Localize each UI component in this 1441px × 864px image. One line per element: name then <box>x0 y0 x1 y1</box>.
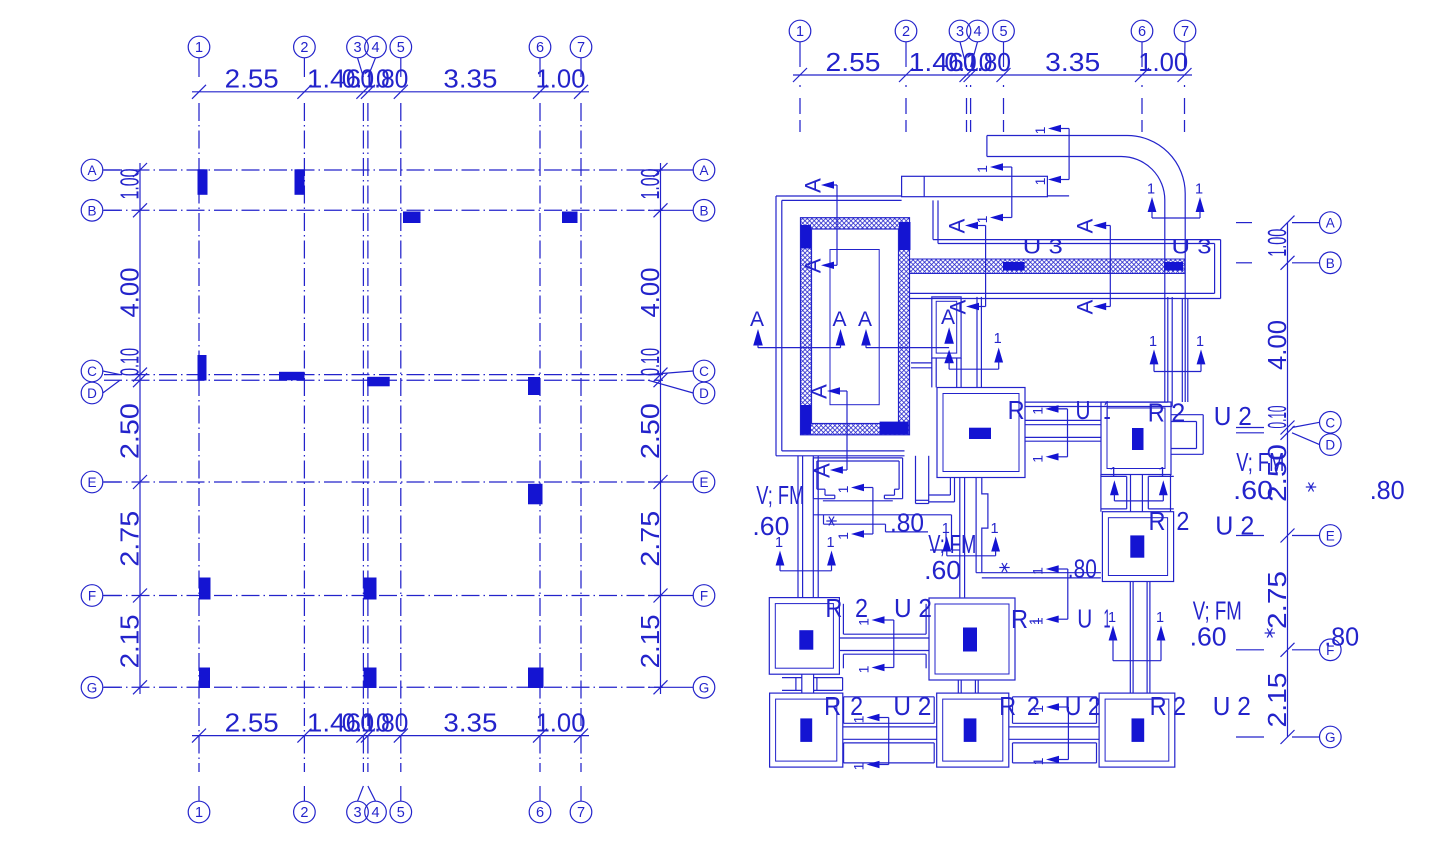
svg-text:.80: .80 <box>1068 554 1097 584</box>
left plan column C1 <box>198 355 207 381</box>
closet box <box>911 297 961 388</box>
left plan grid line 7 <box>570 36 592 823</box>
left plan grid line 4 <box>365 36 387 823</box>
svg-text:3.35: 3.35 <box>443 708 497 738</box>
column B7 <box>1164 262 1183 271</box>
svg-text:A: A <box>945 218 970 233</box>
svg-text:4.00: 4.00 <box>635 268 665 318</box>
svg-text:2.15: 2.15 <box>115 614 145 668</box>
stair column bottom (horizontal) <box>880 422 909 435</box>
label V FM margin C <box>1233 447 1284 505</box>
svg-text:7: 7 <box>577 40 585 56</box>
svg-text:6: 6 <box>1138 24 1146 40</box>
right plan grid row C <box>1236 412 1341 434</box>
svg-text:A: A <box>1326 216 1335 231</box>
svg-text:1: 1 <box>1030 407 1046 415</box>
left plan column F1 <box>199 578 211 600</box>
svg-text:1: 1 <box>1032 126 1048 134</box>
svg-text:A: A <box>810 463 835 478</box>
svg-text:1.00: 1.00 <box>1138 47 1188 77</box>
svg-text:0.10: 0.10 <box>635 348 665 376</box>
svg-text:1: 1 <box>1032 177 1048 185</box>
section A-A leader upper <box>801 178 838 273</box>
svg-text:1.00: 1.00 <box>115 169 145 200</box>
svg-text:1: 1 <box>1156 610 1164 626</box>
svg-text:F: F <box>700 589 708 604</box>
beam C row <box>1026 420 1102 441</box>
label R2 U2 G34 <box>999 691 1101 721</box>
svg-text:1: 1 <box>1149 334 1157 350</box>
right plan grid line 4 <box>967 20 989 132</box>
svg-text:R: R <box>1148 397 1165 427</box>
svg-text:V; FM: V; FM <box>1236 447 1284 477</box>
svg-text:3: 3 <box>956 24 964 40</box>
footing R1 C <box>937 388 1025 478</box>
svg-text:3.35: 3.35 <box>1045 47 1100 77</box>
svg-text:4.00: 4.00 <box>115 268 145 318</box>
label R1 C row <box>1008 395 1111 425</box>
svg-text:6: 6 <box>536 40 544 56</box>
svg-text:2: 2 <box>1173 691 1186 721</box>
svg-text:1: 1 <box>796 24 804 40</box>
star mid <box>999 563 1009 572</box>
svg-text:1.00: 1.00 <box>536 64 586 94</box>
left plan column G1 <box>199 668 210 689</box>
section 1-1 beam F <box>856 616 894 673</box>
svg-text:C: C <box>699 364 709 379</box>
svg-text:U 2: U 2 <box>1214 401 1252 431</box>
svg-text:7: 7 <box>577 805 585 821</box>
svg-text:2: 2 <box>1176 506 1189 536</box>
svg-text:0.10: 0.10 <box>115 348 145 376</box>
right plan grid row D <box>1236 433 1341 456</box>
svg-text:1: 1 <box>1030 455 1046 463</box>
left plan right dimension line <box>635 163 668 694</box>
svg-text:2: 2 <box>902 24 910 40</box>
svg-text:G: G <box>87 680 98 695</box>
left plan column G6 <box>528 668 544 689</box>
left plan column G34 <box>364 668 377 689</box>
svg-text:1: 1 <box>195 805 203 821</box>
label U3 left <box>1023 236 1063 259</box>
right plan grid line 5 <box>993 20 1015 132</box>
left plan column C2 <box>279 372 305 381</box>
svg-text:2.75: 2.75 <box>1262 571 1292 629</box>
svg-text:1: 1 <box>1109 465 1117 481</box>
top beam U3 with curved hook <box>987 135 1185 402</box>
svg-text:.80: .80 <box>1324 622 1359 652</box>
svg-text:4: 4 <box>973 24 981 40</box>
svg-text:B: B <box>87 203 96 218</box>
svg-text:1: 1 <box>1195 182 1203 198</box>
left plan grid row F <box>81 585 715 607</box>
svg-text:.60: .60 <box>924 555 961 585</box>
svg-text:R: R <box>1150 691 1167 721</box>
beam F row <box>839 604 929 669</box>
svg-text:A: A <box>858 308 872 331</box>
footing R2 G34 <box>937 693 1009 767</box>
svg-text:1.00: 1.00 <box>1262 229 1292 257</box>
left plan grid line 6 <box>529 36 551 823</box>
section 1-1 stair bottom <box>835 484 873 540</box>
right plan top dimension line <box>793 47 1192 82</box>
footing R2 E6 <box>1102 512 1173 582</box>
stair wall ring (hatched) <box>801 218 910 435</box>
svg-text:2: 2 <box>1171 397 1185 427</box>
svg-text:1: 1 <box>835 532 851 540</box>
svg-text:A: A <box>946 299 971 314</box>
label U3 right <box>1172 236 1212 259</box>
beam grid6 C-E <box>1101 475 1174 512</box>
right plan grid row E <box>1236 525 1341 547</box>
svg-text:G: G <box>1325 730 1336 745</box>
left plan bottom dimension line <box>192 708 589 743</box>
label V FM mid <box>924 529 976 585</box>
steps stair to footing R1C <box>916 456 929 504</box>
svg-text:1: 1 <box>1030 567 1046 575</box>
wall B (hatched) <box>910 259 1185 274</box>
left plan column C34 <box>367 377 390 387</box>
svg-text:4.00: 4.00 <box>1262 320 1292 370</box>
left plan grid row B <box>81 200 715 222</box>
svg-text:2: 2 <box>300 40 308 56</box>
svg-text:0.80: 0.80 <box>360 64 408 94</box>
svg-text:R: R <box>999 691 1016 721</box>
svg-text:U: U <box>1077 604 1092 634</box>
label .80 E <box>1068 554 1097 584</box>
svg-text:U 3: U 3 <box>1023 236 1063 259</box>
star margin F <box>1265 629 1275 638</box>
svg-text:1.00: 1.00 <box>635 169 665 200</box>
svg-text:1: 1 <box>1104 395 1111 425</box>
svg-text:A: A <box>807 384 832 399</box>
label R2 U2 G6 <box>1150 691 1251 721</box>
svg-text:1: 1 <box>991 521 999 537</box>
svg-text:C: C <box>1325 415 1335 430</box>
svg-text:A: A <box>1073 218 1098 233</box>
star margin C <box>1306 483 1316 492</box>
svg-text:1: 1 <box>1196 334 1204 350</box>
svg-text:7: 7 <box>1181 24 1189 40</box>
svg-text:E: E <box>699 475 708 490</box>
svg-text:0.10: 0.10 <box>1262 406 1292 429</box>
svg-text:2.55: 2.55 <box>225 708 279 738</box>
svg-text:1: 1 <box>1147 182 1155 198</box>
svg-text:2.55: 2.55 <box>826 47 881 77</box>
section A-A cut line <box>750 306 955 369</box>
left plan grid line 2 <box>294 36 316 823</box>
right plan grid line 3 <box>949 20 971 132</box>
left plan grid row A <box>81 159 715 181</box>
svg-text:B: B <box>699 203 708 218</box>
svg-text:1: 1 <box>974 165 990 173</box>
wall piece mid <box>813 515 959 550</box>
right plan grid row G <box>1236 726 1341 748</box>
svg-text:0.80: 0.80 <box>963 47 1011 77</box>
svg-text:D: D <box>699 386 709 401</box>
right plan grid line 6 <box>1131 20 1153 132</box>
beam grid1 vertical <box>798 456 818 598</box>
svg-text:2.15: 2.15 <box>635 614 665 668</box>
label R2 U2 G1 <box>824 691 931 721</box>
svg-text:0.80: 0.80 <box>360 708 408 738</box>
svg-text:2: 2 <box>850 691 863 721</box>
section 1-1 beam G a <box>851 714 889 771</box>
section 1-1 beam C <box>1030 405 1068 462</box>
label R2 U2 E6 <box>1149 506 1255 541</box>
hat beam outline <box>813 458 902 501</box>
section 1-1 top beam <box>1032 125 1069 186</box>
svg-text:2.15: 2.15 <box>1262 673 1292 728</box>
svg-text:5: 5 <box>397 805 405 821</box>
svg-text:.80: .80 <box>890 508 924 538</box>
footing C6 notch <box>1171 415 1203 455</box>
right plan dimension line <box>1262 216 1295 744</box>
svg-text:1: 1 <box>851 762 867 770</box>
beam grid34 F-G <box>958 680 978 693</box>
svg-text:1: 1 <box>1158 465 1166 481</box>
wall grid7 B-C <box>1182 299 1188 403</box>
stair opening <box>830 250 879 405</box>
footing R2 C6 <box>1101 402 1171 475</box>
top beam 2 <box>902 176 1070 196</box>
label R1 F row <box>1011 604 1111 635</box>
section A-A leader room-left <box>945 218 986 314</box>
left plan grid line 1 <box>188 36 210 823</box>
svg-text:B: B <box>1326 256 1335 271</box>
svg-text:1: 1 <box>195 40 203 56</box>
section 1-1 wall B g5 <box>949 331 1003 369</box>
svg-text:E: E <box>87 475 96 490</box>
label R2 U2 F1 <box>825 593 932 623</box>
stair column top-right <box>899 222 911 250</box>
svg-text:.60: .60 <box>1190 622 1227 652</box>
svg-text:2.50: 2.50 <box>635 403 665 459</box>
svg-text:1: 1 <box>1026 617 1042 625</box>
svg-text:1: 1 <box>974 215 990 223</box>
left plan grid row D <box>81 380 715 404</box>
svg-text:2.50: 2.50 <box>115 403 145 459</box>
svg-text:D: D <box>1325 438 1335 453</box>
left plan grid line 5 <box>390 36 412 823</box>
section 1-1 hook <box>1147 182 1204 219</box>
svg-text:R: R <box>825 593 842 623</box>
beam grid1 F-G <box>782 674 843 693</box>
svg-text:4: 4 <box>371 40 379 56</box>
svg-text:A: A <box>801 258 826 273</box>
svg-text:R: R <box>1008 395 1025 425</box>
svg-text:R: R <box>1149 506 1166 536</box>
section A-A leader room-right <box>1073 218 1111 314</box>
left plan column A2 <box>295 169 305 195</box>
room walls <box>977 297 1172 407</box>
section 1-1 beams g34 E <box>942 521 1000 556</box>
svg-text:3: 3 <box>353 40 361 56</box>
svg-text:A: A <box>801 178 826 193</box>
svg-text:2.75: 2.75 <box>115 511 145 567</box>
svg-text:2: 2 <box>1027 691 1040 721</box>
section 1-1 beam g1 <box>775 535 836 571</box>
svg-text:1.00: 1.00 <box>536 708 586 738</box>
left plan column B7 <box>562 212 578 224</box>
svg-text:.60: .60 <box>752 511 789 541</box>
svg-text:A: A <box>87 163 96 178</box>
section 1-1 beam g34 EF <box>1030 565 1068 625</box>
right plan grid row A <box>1236 212 1341 234</box>
svg-text:2: 2 <box>855 593 868 623</box>
section A-A leader lower <box>807 384 848 478</box>
footing R2 F1 <box>769 598 839 675</box>
svg-text:2.55: 2.55 <box>225 64 279 94</box>
svg-text:E: E <box>1326 529 1335 544</box>
svg-text:1: 1 <box>835 485 851 493</box>
svg-text:G: G <box>699 680 710 695</box>
svg-text:A: A <box>750 308 764 331</box>
label .80 margin C <box>1370 475 1405 505</box>
right plan grid line 1 <box>789 20 811 132</box>
svg-text:1: 1 <box>994 331 1002 347</box>
label .80 mid <box>890 508 924 538</box>
svg-text:.60: .60 <box>1233 475 1273 505</box>
section 1-1 wall C6 <box>1149 334 1205 372</box>
stair footing outline <box>776 196 905 456</box>
footing R2 G6 <box>1099 693 1175 767</box>
left plan column C6 <box>528 377 540 395</box>
svg-text:3: 3 <box>353 805 361 821</box>
svg-text:1: 1 <box>826 535 834 551</box>
section 1-1 beam2 <box>974 163 1012 223</box>
svg-text:U: U <box>1076 395 1091 425</box>
svg-text:C: C <box>87 364 97 379</box>
wall E row <box>976 573 1101 578</box>
beam G row 2 <box>1009 697 1099 763</box>
svg-text:R: R <box>824 691 841 721</box>
svg-text:U 2: U 2 <box>893 691 931 721</box>
svg-text:.80: .80 <box>1370 475 1405 505</box>
right plan grid row B <box>1236 252 1341 274</box>
svg-text:U 2: U 2 <box>1215 511 1254 541</box>
left plan column F34 <box>364 578 377 600</box>
section 1-1 beam g6 EG <box>1108 610 1165 661</box>
svg-text:1: 1 <box>1104 604 1111 634</box>
svg-text:A: A <box>832 308 846 331</box>
stair column bottom-left <box>801 405 812 434</box>
label V FM left <box>752 480 804 541</box>
left plan grid row G <box>81 677 715 699</box>
left plan grid line 3 <box>347 36 369 823</box>
left plan top dimension line <box>192 64 589 99</box>
beam grid34 C-F <box>960 478 988 598</box>
label .80 margin F <box>1324 622 1359 652</box>
svg-text:V; FM: V; FM <box>756 480 804 510</box>
svg-text:A: A <box>1073 299 1098 314</box>
svg-text:A: A <box>699 163 708 178</box>
left plan left dimension line <box>115 163 148 694</box>
svg-text:U 2: U 2 <box>1065 691 1101 721</box>
svg-text:U 2: U 2 <box>894 593 932 623</box>
right plan grid row F <box>1236 639 1341 661</box>
left plan column E6 <box>528 484 543 505</box>
svg-text:U 3: U 3 <box>1172 236 1212 259</box>
left plan column A1 <box>198 169 208 195</box>
stair column top-left <box>801 225 812 249</box>
left plan column B5 <box>403 212 421 224</box>
svg-text:F: F <box>88 589 96 604</box>
beam grid6 E-G <box>1130 582 1150 694</box>
wall B footing outline <box>910 200 1221 298</box>
svg-text:2.75: 2.75 <box>635 511 665 567</box>
beam G row 1 <box>843 697 937 763</box>
svg-text:5: 5 <box>999 24 1007 40</box>
svg-text:4: 4 <box>371 805 379 821</box>
steps footing R1C to hat <box>929 478 955 502</box>
footing R2 G1 <box>770 693 843 767</box>
left plan grid row C <box>81 360 715 382</box>
svg-text:1: 1 <box>1030 757 1046 765</box>
svg-text:2: 2 <box>300 805 308 821</box>
svg-text:D: D <box>87 386 97 401</box>
right plan grid line 7 <box>1174 20 1196 132</box>
svg-text:5: 5 <box>397 40 405 56</box>
left plan grid row E <box>81 471 715 493</box>
column B5 <box>1003 262 1025 271</box>
svg-text:6: 6 <box>536 805 544 821</box>
label V FM margin F <box>1190 596 1242 652</box>
section 1-1 beam G b <box>1030 703 1068 765</box>
svg-text:3.35: 3.35 <box>443 64 497 94</box>
svg-text:1: 1 <box>856 665 872 673</box>
svg-text:U 2: U 2 <box>1213 691 1251 721</box>
right plan grid line 2 <box>895 20 917 132</box>
label R2 U2 C6 <box>1148 397 1252 431</box>
footing R1 F34 <box>929 598 1015 680</box>
section 1-1 beam g6 CE <box>1109 465 1167 501</box>
star mid-left <box>826 517 836 526</box>
